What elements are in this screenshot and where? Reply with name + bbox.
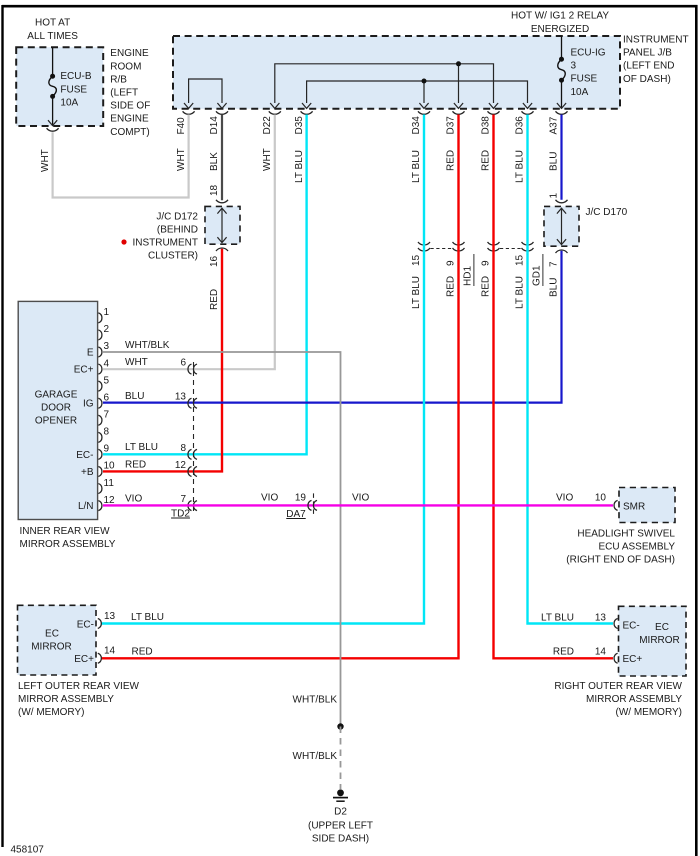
svg-text:16: 16: [209, 255, 220, 267]
ground D2: [337, 789, 344, 796]
svg-text:RED: RED: [209, 289, 220, 310]
svg-text:ECU ASSEMBLY: ECU ASSEMBLY: [598, 542, 675, 553]
svg-text:ENERGIZED: ENERGIZED: [531, 24, 589, 35]
svg-text:INNER REAR VIEW: INNER REAR VIEW: [20, 526, 111, 537]
svg-text:(BEHIND: (BEHIND: [157, 224, 198, 235]
svg-text:13: 13: [104, 611, 116, 622]
svg-text:(W/ MEMORY): (W/ MEMORY): [616, 707, 682, 718]
svg-text:DA7: DA7: [286, 509, 306, 520]
connector TD2 dashed body: [193, 362, 195, 511]
svg-text:LT BLU: LT BLU: [515, 276, 526, 309]
svg-text:10: 10: [595, 493, 607, 504]
svg-text:D38: D38: [481, 116, 492, 135]
connector pin F40: [183, 111, 195, 114]
svg-text:19: 19: [295, 493, 307, 504]
headlight swivel ECU (SMR): [614, 500, 618, 510]
svg-text:HEADLIGHT SWIVEL: HEADLIGHT SWIVEL: [577, 528, 675, 539]
in-line connector pin 15 (LT BLU): [522, 242, 534, 245]
svg-text:2: 2: [104, 324, 110, 335]
svg-text:VIO: VIO: [261, 493, 278, 504]
connector pin D37: [453, 111, 465, 114]
svg-text:LT BLU: LT BLU: [131, 612, 164, 623]
wire LT BLU D35 to garage pin 9: [103, 115, 307, 455]
wire RED D38 to right mirror: [494, 242, 614, 658]
svg-text:RED: RED: [446, 276, 457, 297]
right mirror pin 13: [614, 619, 618, 629]
svg-text:D34: D34: [411, 116, 422, 135]
svg-text:BLU: BLU: [549, 152, 560, 171]
svg-text:IG: IG: [83, 399, 94, 410]
svg-text:18: 18: [209, 184, 220, 196]
garage pin 2: [98, 330, 102, 340]
svg-text:ENGINE: ENGINE: [110, 48, 149, 59]
svg-text:WHT: WHT: [125, 357, 148, 368]
svg-text:TD2: TD2: [171, 509, 190, 520]
svg-text:(LEFT END: (LEFT END: [623, 61, 675, 72]
garage pin 5: [98, 381, 102, 391]
svg-text:RED: RED: [446, 150, 457, 171]
svg-text:SMR: SMR: [623, 502, 645, 513]
garage pin 12: [98, 501, 102, 511]
wire WHT/BLK dashed to ground: [340, 727, 342, 790]
red bullet: [121, 239, 126, 244]
svg-text:(UPPER LEFT: (UPPER LEFT: [308, 820, 373, 831]
garage pin 6: [98, 398, 102, 408]
svg-text:5: 5: [104, 375, 110, 386]
svg-text:(W/ MEMORY): (W/ MEMORY): [18, 707, 84, 718]
svg-text:RED: RED: [481, 150, 492, 171]
in-line connector pin 15 (LT BLU): [418, 242, 430, 245]
border frame left: [1, 5, 3, 847]
svg-text:11: 11: [104, 478, 115, 489]
svg-text:3: 3: [104, 341, 110, 352]
wire VIO garage pin 12 to SMR: [103, 504, 613, 506]
svg-text:E: E: [87, 348, 94, 359]
connector TD2 pin 8: [188, 449, 192, 459]
svg-text:LT BLU: LT BLU: [515, 150, 526, 183]
connector TD2 pin 6: [188, 364, 192, 374]
svg-text:WHT/BLK: WHT/BLK: [125, 340, 170, 351]
svg-text:13: 13: [595, 613, 607, 624]
svg-text:LT BLU: LT BLU: [294, 150, 305, 183]
svg-text:EC: EC: [45, 629, 59, 640]
svg-text:J/C D170: J/C D170: [586, 207, 628, 218]
garage pin 11: [98, 484, 102, 494]
svg-text:OPENER: OPENER: [35, 416, 77, 427]
svg-text:(RIGHT END OF DASH): (RIGHT END OF DASH): [566, 555, 675, 566]
svg-text:EC-: EC-: [76, 450, 93, 461]
svg-text:7: 7: [549, 261, 560, 267]
svg-text:MIRROR: MIRROR: [639, 635, 680, 646]
connector pin D36: [522, 111, 534, 114]
garage pin 9: [98, 449, 102, 459]
svg-text:13: 13: [175, 392, 187, 403]
border frame top: [2, 5, 698, 8]
svg-text:1: 1: [549, 193, 560, 199]
svg-text:10: 10: [104, 461, 116, 472]
svg-text:8: 8: [180, 443, 186, 454]
svg-text:BLK: BLK: [209, 152, 220, 171]
svg-text:SIDE OF: SIDE OF: [110, 101, 150, 112]
svg-text:COMPT): COMPT): [110, 127, 149, 138]
svg-text:RED: RED: [481, 276, 492, 297]
junction dot: [337, 723, 343, 729]
wire RED D38 upper segment: [492, 115, 494, 243]
in-line connector pin 9 (RED): [453, 242, 465, 245]
svg-text:LT BLU: LT BLU: [411, 276, 422, 309]
svg-text:EC+: EC+: [74, 365, 94, 376]
svg-text:SIDE DASH): SIDE DASH): [312, 834, 369, 845]
svg-text:EC-: EC-: [77, 620, 94, 631]
garage pin 10: [98, 466, 102, 476]
svg-text:RED: RED: [125, 459, 146, 470]
connector pin D35: [301, 111, 313, 114]
svg-text:D37: D37: [446, 116, 457, 135]
svg-text:14: 14: [104, 646, 116, 657]
wire J/B internal F40-D14 link: [189, 79, 222, 103]
svg-text:ALL TIMES: ALL TIMES: [27, 31, 78, 42]
svg-text:7: 7: [104, 409, 110, 420]
wire RED D37 to left mirror: [101, 242, 459, 658]
in-line connector pin 9 (RED): [488, 242, 500, 245]
svg-text:D14: D14: [209, 116, 220, 135]
garage pin 3: [98, 347, 102, 357]
svg-text:10A: 10A: [571, 87, 589, 98]
wire BLK D14 to J/C D172: [221, 115, 223, 201]
svg-text:7: 7: [180, 494, 186, 505]
svg-text:MIRROR: MIRROR: [31, 641, 72, 652]
wire BLU A37 to J/C D170: [560, 115, 562, 200]
wire WHT from ECU-B to F40: [53, 115, 189, 198]
connector TD2 pin 12: [188, 466, 192, 476]
svg-text:MIRROR ASSEMBLY: MIRROR ASSEMBLY: [18, 694, 114, 705]
svg-text:10A: 10A: [60, 98, 78, 109]
wire J/B internal D35-D34-D36 link: [307, 81, 528, 103]
svg-text:WHT/BLK: WHT/BLK: [293, 695, 338, 706]
wire LT BLU D36 upper segment: [526, 115, 528, 243]
svg-text:OF DASH): OF DASH): [623, 74, 671, 85]
svg-text:9: 9: [104, 444, 110, 455]
wire WHT/BLK garage pin 3 to ground: [103, 352, 341, 726]
svg-text:RIGHT OUTER REAR VIEW: RIGHT OUTER REAR VIEW: [554, 681, 682, 692]
svg-text:ECU-B: ECU-B: [60, 71, 91, 82]
svg-text:GD1: GD1: [532, 265, 543, 286]
connector TD2 pin 7: [188, 501, 192, 511]
border frame right: [695, 5, 698, 856]
connector below ECU-B box: [47, 128, 59, 131]
wire BLU J/C D170 to garage pin 6: [103, 251, 562, 403]
svg-text:ROOM: ROOM: [110, 61, 141, 72]
svg-text:PANEL J/B: PANEL J/B: [623, 48, 672, 59]
connector GD1 dashes: [500, 248, 521, 250]
svg-text:GARAGE: GARAGE: [35, 390, 78, 401]
svg-text:14: 14: [595, 646, 607, 657]
svg-text:9: 9: [481, 260, 492, 266]
svg-text:BLU: BLU: [125, 391, 144, 402]
svg-text:LT BLU: LT BLU: [411, 150, 422, 183]
svg-text:FUSE: FUSE: [60, 84, 87, 95]
connector pin D34: [418, 111, 430, 114]
svg-text:EC: EC: [655, 622, 669, 633]
svg-text:HD1: HD1: [463, 266, 474, 286]
svg-text:BLU: BLU: [549, 278, 560, 297]
svg-text:EC-: EC-: [623, 621, 640, 632]
svg-text:ENGINE: ENGINE: [110, 114, 149, 125]
svg-text:3: 3: [571, 61, 577, 72]
svg-text:RED: RED: [132, 647, 153, 658]
svg-text:HOT W/ IG1 2 RELAY: HOT W/ IG1 2 RELAY: [511, 11, 609, 22]
svg-text:9: 9: [446, 260, 457, 266]
svg-text:ECU-IG: ECU-IG: [571, 48, 606, 59]
junction connector J/C D172: [216, 200, 228, 203]
svg-text:WHT/BLK: WHT/BLK: [293, 751, 338, 762]
svg-text:15: 15: [515, 254, 526, 266]
left mirror pin 14: [98, 653, 102, 663]
garage pin 8: [98, 432, 102, 442]
svg-text:FUSE: FUSE: [571, 74, 598, 85]
svg-text:VIO: VIO: [556, 493, 573, 504]
right mirror pin 14: [614, 653, 618, 663]
svg-text:D36: D36: [515, 116, 526, 135]
svg-text:15: 15: [411, 254, 422, 266]
svg-text:EC+: EC+: [74, 654, 94, 665]
left outer rear view mirror assembly (EC MIRROR): [18, 605, 97, 675]
svg-text:INSTRUMENT: INSTRUMENT: [623, 35, 689, 46]
svg-text:458107: 458107: [11, 845, 45, 856]
connector pin D14: [216, 111, 228, 114]
svg-text:A37: A37: [549, 116, 560, 134]
wire LT BLU D36 to right mirror: [528, 242, 614, 624]
svg-text:WHT: WHT: [262, 148, 273, 171]
svg-text:6: 6: [104, 392, 110, 403]
wire J/B internal D22-D37-D38 link: [275, 64, 494, 103]
svg-text:WHT: WHT: [176, 148, 187, 171]
svg-text:D35: D35: [294, 116, 305, 135]
garage pin 7: [98, 415, 102, 425]
svg-text:+B: +B: [81, 467, 94, 478]
fuse ECU-B 10A: [52, 47, 54, 76]
svg-text:L/N: L/N: [78, 501, 94, 512]
wire RED D37 upper segment: [457, 115, 459, 243]
svg-text:HOT AT: HOT AT: [35, 18, 70, 29]
garage pin 1: [98, 313, 102, 323]
svg-text:LT BLU: LT BLU: [125, 442, 158, 453]
svg-text:R/B: R/B: [110, 74, 127, 85]
svg-text:(LEFT: (LEFT: [110, 88, 138, 99]
right outer rear view mirror assembly (EC MIRROR): [619, 606, 687, 676]
svg-text:12: 12: [104, 495, 116, 506]
svg-text:D22: D22: [262, 116, 273, 135]
svg-text:LEFT OUTER REAR VIEW: LEFT OUTER REAR VIEW: [18, 681, 140, 692]
svg-text:12: 12: [175, 460, 187, 471]
svg-text:1: 1: [104, 307, 110, 318]
svg-text:RED: RED: [553, 646, 574, 657]
garage pin 4: [98, 364, 102, 374]
wire WHT D22 to garage pin 4: [103, 115, 275, 370]
svg-text:MIRROR ASSEMBLY: MIRROR ASSEMBLY: [586, 694, 682, 705]
connector pin A37: [556, 111, 568, 114]
connector pin D22: [269, 111, 281, 114]
wire LT BLU D34 to left mirror: [101, 242, 424, 624]
instrument panel J/B box: [173, 36, 620, 109]
wire RED J/C D172 to garage pin 10: [103, 249, 222, 472]
svg-text:4: 4: [104, 358, 110, 369]
connector HD1 dashes: [431, 248, 453, 250]
svg-text:DOOR: DOOR: [41, 403, 71, 414]
svg-text:CLUSTER): CLUSTER): [148, 251, 198, 262]
garage door opener (inner rear view mirror assembly): [18, 301, 97, 519]
svg-text:6: 6: [180, 357, 186, 368]
wire LT BLU D34 upper segment: [423, 115, 425, 243]
svg-text:LT BLU: LT BLU: [541, 613, 574, 624]
svg-text:INSTRUMENT: INSTRUMENT: [132, 238, 198, 249]
svg-text:EC+: EC+: [623, 654, 643, 665]
svg-text:MIRROR ASSEMBLY: MIRROR ASSEMBLY: [20, 539, 116, 550]
svg-text:J/C D172: J/C D172: [156, 211, 198, 222]
fuse ECU-IG 3 10A: [561, 36, 563, 59]
svg-text:VIO: VIO: [125, 493, 142, 504]
left mirror pin 13: [98, 619, 102, 629]
svg-text:D2: D2: [334, 807, 347, 818]
svg-text:8: 8: [104, 427, 110, 438]
connector pin D38: [488, 111, 500, 114]
connector DA7: [313, 493, 315, 517]
connector TD2 pin 13: [188, 398, 192, 408]
svg-text:F40: F40: [176, 117, 187, 135]
svg-text:WHT: WHT: [40, 149, 51, 172]
engine room R/B box: [16, 47, 103, 126]
svg-text:VIO: VIO: [352, 493, 369, 504]
